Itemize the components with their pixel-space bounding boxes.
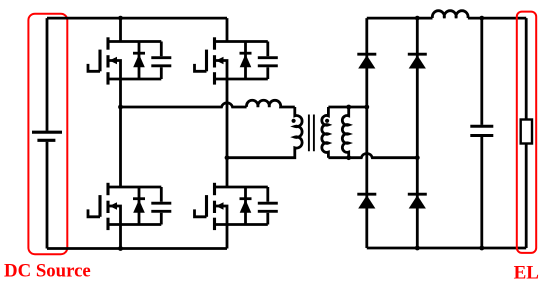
inductor Lr (series resonant) xyxy=(247,100,295,107)
wire: top DC rail xyxy=(47,17,227,20)
wire: left bridge leg xyxy=(119,18,122,248)
svg-text:DC Source: DC Source xyxy=(4,261,91,282)
inductor Lf (output filter) xyxy=(432,11,468,18)
diode D3 (lower-left) xyxy=(357,193,376,196)
body diode of Q2 (top-right) xyxy=(240,42,252,80)
wire: rectifier left leg xyxy=(365,18,368,248)
output filter capacitor Cf xyxy=(470,18,493,248)
load wire xyxy=(525,18,528,248)
red highlight box around DC source xyxy=(28,14,67,255)
primary polarity dot xyxy=(292,119,296,123)
wire: right bridge leg xyxy=(226,18,229,248)
diode D2 (upper-right) xyxy=(408,53,427,56)
junction: secondary bottom / rectifier right leg xyxy=(415,155,420,160)
snubber capacitor of Q3 (bottom-left) xyxy=(151,187,171,225)
MOSFET Q3 (bottom-left) xyxy=(88,183,161,230)
load resistor EL (electrolyzer) xyxy=(521,120,532,144)
DC source battery V1 xyxy=(32,18,62,248)
junction: Lm bottom xyxy=(346,155,351,160)
wire: secondary bottom to rectifier right leg with hop xyxy=(328,153,417,157)
body diode of Q4 (bottom-right) xyxy=(240,187,252,225)
snubber capacitor of Q1 (top-left) xyxy=(151,42,171,80)
junction: top rail / left leg xyxy=(118,16,123,21)
transformer T1 secondary winding xyxy=(322,107,329,158)
wire: output bottom rail xyxy=(367,247,526,250)
wire: top rail after inductor to load xyxy=(468,17,526,20)
junction: secondary top / rectifier left leg xyxy=(364,105,369,110)
wire: secondary top to rectifier left leg xyxy=(328,106,366,109)
diode D1 (upper-left) xyxy=(357,53,376,56)
junction: top rail / Cf xyxy=(479,16,484,21)
wire: output top rail with filter inductor Lf xyxy=(367,17,433,20)
MOSFET Q2 (top-right) xyxy=(195,37,268,84)
wire: phase A to transformer with crossover hop and series inductor Lr xyxy=(121,103,247,107)
wire: rectifier right leg xyxy=(416,18,419,248)
body diode of Q1 (top-left) xyxy=(133,42,145,80)
junction: bottom rail / rectifier right leg xyxy=(415,246,420,251)
transformer core xyxy=(309,115,314,152)
svg-text:EL: EL xyxy=(514,263,539,284)
junction: primary bottom / right leg xyxy=(225,155,230,160)
junction: top rail / rectifier right leg xyxy=(415,16,420,21)
magnetizing inductance Lm (parallel winding) xyxy=(342,107,348,158)
wire: bottom DC rail xyxy=(47,247,227,250)
red highlight box around EL load xyxy=(517,12,536,253)
junction: Lm top xyxy=(346,105,351,110)
secondary polarity dot xyxy=(325,119,329,123)
body diode of Q3 (bottom-left) xyxy=(133,187,145,225)
junction: phase A / left leg xyxy=(118,105,123,110)
junction: bottom rail / Cf xyxy=(479,246,484,251)
MOSFET Q1 (top-left) xyxy=(88,37,161,84)
transformer T1 primary winding xyxy=(227,107,302,158)
MOSFET Q4 (bottom-right) xyxy=(195,183,268,230)
junction: bottom rail / left leg xyxy=(118,246,123,251)
diode D4 (lower-right) xyxy=(408,193,427,196)
snubber capacitor of Q2 (top-right) xyxy=(258,42,278,80)
snubber capacitor of Q4 (bottom-right) xyxy=(258,187,278,225)
